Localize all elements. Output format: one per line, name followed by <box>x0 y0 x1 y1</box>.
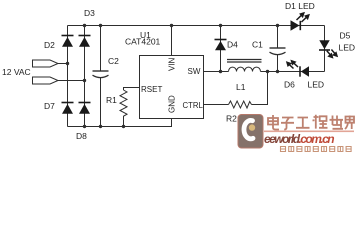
svg-text:D2: D2 <box>44 40 55 50</box>
LED D5 <box>319 40 330 50</box>
pin CTRL <box>183 101 204 110</box>
node top rail D3 junction <box>83 24 86 27</box>
label R2 <box>226 114 237 124</box>
diode D7 <box>62 103 74 114</box>
LED D6 light arrows <box>287 61 298 69</box>
LED D1 <box>291 20 301 30</box>
wire AC input 2 <box>58 80 85 82</box>
wire top rail <box>68 25 325 27</box>
label U1 <box>140 30 151 40</box>
watermark logo white C <box>244 120 253 138</box>
label D5 <box>340 31 351 41</box>
svg-text:D4: D4 <box>227 40 238 50</box>
svg-text:D3: D3 <box>84 8 95 18</box>
node bottom rail C2 junction <box>99 125 102 128</box>
wire bottom rail <box>68 118 172 127</box>
label D4 <box>227 40 238 50</box>
svg-text:D6: D6 <box>284 80 295 90</box>
wire VIN pin <box>171 26 173 56</box>
resistor R1 <box>120 90 127 118</box>
svg-text:LED: LED <box>308 80 325 90</box>
svg-text:GND: GND <box>168 95 177 113</box>
watermark text dianzi gongcheng shijie <box>268 115 354 130</box>
node AC2 junction <box>83 79 86 82</box>
capacitor C2 <box>93 71 109 78</box>
terminal 12VAC top tag <box>33 60 59 67</box>
svg-text:CAT4201: CAT4201 <box>125 37 161 47</box>
node SW D4 junction <box>219 70 222 73</box>
diode D3 <box>79 36 91 47</box>
watermark underline <box>264 131 354 133</box>
label D5 LED <box>339 43 356 53</box>
svg-text:L1: L1 <box>236 82 246 92</box>
node top rail C2 junction <box>99 24 102 27</box>
watermark text eeworld.com.cn <box>264 132 334 146</box>
node SW C1 junction <box>276 70 279 73</box>
wire LED string right side <box>324 26 326 72</box>
label D8 <box>76 131 87 141</box>
wire RSET to R1 <box>124 88 140 91</box>
diode D2 <box>62 36 74 47</box>
node bottom rail D8 junction <box>83 125 86 128</box>
wire GND pin <box>171 119 173 127</box>
svg-text:12 VAC: 12 VAC <box>2 67 31 77</box>
wire C1 branch <box>277 26 279 72</box>
node top rail VIN junction <box>170 24 173 27</box>
wire SW node <box>204 71 325 73</box>
svg-text:eeworld.com.cn: eeworld.com.cn <box>264 132 334 146</box>
svg-text:R1: R1 <box>106 95 117 105</box>
capacitor C1 <box>270 48 286 55</box>
label L1 <box>236 82 246 92</box>
wire R1 bottom <box>123 118 125 127</box>
pin VIN <box>168 57 177 71</box>
inductor L1 <box>227 60 262 72</box>
wire CTRL to R2 <box>204 104 229 106</box>
watermark slogan <box>281 147 352 152</box>
watermark logo gold dot <box>249 124 255 130</box>
node top rail C1 junction <box>276 24 279 27</box>
terminal 12VAC bottom tag <box>33 77 59 84</box>
svg-text:RSET: RSET <box>141 85 162 94</box>
diode D8 <box>79 103 91 114</box>
watermark logo box <box>238 115 263 149</box>
wire D4 branch <box>220 26 222 72</box>
svg-text:VIN: VIN <box>168 57 177 71</box>
svg-text:LED: LED <box>339 43 356 53</box>
node AC1 junction <box>66 62 69 65</box>
diode D4 <box>215 40 227 51</box>
wire bridge left column <box>67 26 69 127</box>
node top rail D4 junction <box>219 24 222 27</box>
label C2 <box>108 56 119 66</box>
LED D6 <box>300 66 309 76</box>
label D3 <box>84 8 95 18</box>
svg-text:C2: C2 <box>108 56 119 66</box>
label D6 LED <box>308 80 325 90</box>
svg-text:D7: D7 <box>44 101 55 111</box>
svg-text:C1: C1 <box>252 40 263 50</box>
node SW R2 junction <box>266 70 269 73</box>
label D2 <box>44 40 55 50</box>
svg-text:D5: D5 <box>340 31 351 41</box>
op-amp U1 box <box>140 56 204 119</box>
wire C2 branch <box>100 26 102 127</box>
label C1 <box>252 40 263 50</box>
label D7 <box>44 101 55 111</box>
label R1 <box>106 95 117 105</box>
wire bridge right column <box>84 26 86 127</box>
svg-text:SW: SW <box>188 67 201 76</box>
label 12 VAC <box>2 67 31 77</box>
label CAT4201 <box>125 37 161 47</box>
LED D5 light arrows <box>327 50 337 58</box>
wire AC input 1 <box>58 63 68 65</box>
pin GND <box>168 95 177 113</box>
svg-text:R2: R2 <box>226 114 237 124</box>
node bottom rail R1 junction <box>122 125 125 128</box>
wire R2 to SW node <box>252 72 268 105</box>
label D1 LED <box>285 1 315 11</box>
svg-text:CTRL: CTRL <box>183 101 204 110</box>
pin RSET <box>141 85 162 94</box>
LED D1 light arrows <box>297 13 309 22</box>
svg-text:D8: D8 <box>76 131 87 141</box>
svg-text:D1 LED: D1 LED <box>285 1 315 11</box>
pin SW <box>188 67 201 76</box>
resistor R2 <box>229 101 252 108</box>
label D6 <box>284 80 295 90</box>
